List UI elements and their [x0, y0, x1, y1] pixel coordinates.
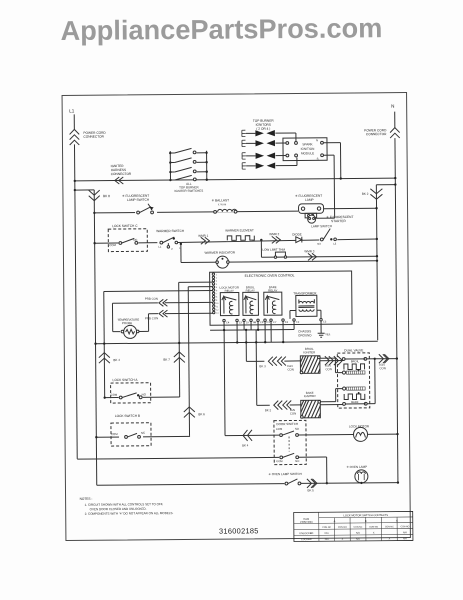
junction fluor switch row [93, 212, 95, 214]
svg-text:WMR 3: WMR 3 [304, 249, 314, 253]
dual valve spark switch broil [342, 371, 365, 374]
svg-text:CON-NC: CON-NC [354, 527, 363, 529]
svg-text:N/A: N/A [403, 537, 407, 540]
border frame [62, 92, 410, 540]
wire lock B row [96, 435, 190, 438]
svg-text:2: 2 [216, 277, 218, 279]
connector BK 6 [184, 407, 195, 412]
wire pin to lock feed [104, 289, 212, 292]
svg-text:RELAY: RELAY [268, 288, 277, 292]
top burner ignitor 2 [242, 140, 275, 147]
svg-text:COM: COM [111, 432, 118, 436]
svg-text:NC: NC [141, 431, 145, 435]
svg-text:CON-NO: CON-NO [369, 526, 378, 528]
svg-text:WARMER ELEMENT: WARMER ELEMENT [225, 228, 254, 232]
svg-text:LAMP SWITCH: LAMP SWITCH [127, 198, 150, 202]
svg-text:NO: NO [142, 392, 147, 396]
wire bus1 [210, 328, 294, 331]
wire ignitor row3 to module [276, 155, 286, 157]
lock switch B contacts [119, 431, 143, 440]
svg-text:BK 5: BK 5 [307, 488, 314, 492]
junction lock B com [95, 436, 97, 438]
connector BK 2 top [370, 189, 382, 194]
svg-text:COM: COM [111, 393, 118, 397]
module pin left top [286, 142, 289, 145]
wire warmer indicator drop [180, 244, 182, 262]
svg-text:C4: C4 [226, 321, 230, 324]
oven lamp [355, 470, 368, 483]
svg-text:YEL: YEL [325, 332, 331, 336]
wire N to BK2 branch [376, 184, 395, 186]
svg-text:(LT523B): (LT523B) [218, 204, 227, 206]
svg-text:N/A: N/A [325, 538, 329, 541]
svg-text:CY: CY [273, 321, 277, 324]
junction BK8 branch [74, 189, 76, 191]
wire module S to starter [324, 154, 334, 156]
wire probe lower left [148, 313, 157, 315]
junction L1 top [74, 180, 76, 182]
svg-text:IGNITER: IGNITER [303, 350, 315, 354]
svg-text:A: A [334, 519, 336, 523]
connector IGN CON broil right [325, 356, 330, 365]
wire transformer right lead [317, 309, 321, 311]
svg-text:K2: K2 [285, 321, 289, 324]
lock switch C contacts [118, 237, 138, 246]
wire bake igniter to valve [320, 404, 343, 406]
module pin S [321, 154, 324, 157]
wire control drop x271 [270, 321, 272, 329]
bake igniter [300, 400, 320, 418]
connector BK 7 [174, 352, 185, 357]
svg-text:19: 19 [246, 321, 249, 324]
svg-text:N: N [316, 138, 318, 142]
svg-text:CON: CON [287, 367, 293, 371]
wire probe upper left [112, 302, 157, 304]
wire drop 256 bake [255, 330, 258, 405]
wire probe lower [165, 312, 212, 314]
junction bus2 x237 [236, 341, 238, 343]
svg-text:NC: NC [133, 238, 137, 242]
svg-text:PRB CON: PRB CON [145, 316, 158, 320]
wire transformer left lead [290, 309, 296, 311]
svg-text:L3: L3 [333, 242, 336, 246]
svg-text:N/A: N/A [356, 532, 360, 535]
svg-text:C: C [396, 519, 398, 523]
wire lock A row [105, 396, 180, 399]
relay K3 bake relay [264, 292, 282, 315]
svg-text:6: 6 [216, 290, 218, 292]
control connector P1 pins [212, 273, 219, 315]
wire bake chev to igniter [290, 404, 301, 406]
dual valve spark switch bake [343, 387, 366, 390]
wire ignitor row4 to module [276, 164, 297, 166]
junction oven lamp [360, 482, 362, 484]
warmer element R1 [226, 234, 254, 241]
svg-text:IGNITER: IGNITER [304, 394, 316, 398]
warmer switch [157, 234, 182, 245]
connector PRB CON upper [159, 299, 164, 306]
warmer indicator lamp [216, 256, 230, 268]
door switch lower contacts [279, 451, 301, 459]
svg-text:11: 11 [216, 306, 219, 308]
lock switch C box [108, 229, 147, 252]
wire control drop x237 [236, 322, 238, 330]
svg-text:GROUND: GROUND [298, 333, 312, 337]
svg-text:P: P [171, 247, 173, 251]
svg-text:DOOR SWITCH: DOOR SWITCH [276, 422, 298, 426]
svg-text:CON-NO: CON-NO [400, 526, 409, 528]
top burner igniter switches left rail [169, 151, 171, 180]
wire control drop x251 [250, 322, 252, 330]
svg-text:✳ OVEN LAMP: ✳ OVEN LAMP [346, 465, 367, 469]
svg-text:TRANSFORMER: TRANSFORMER [293, 291, 317, 295]
svg-text:BAKE: BAKE [351, 400, 358, 404]
wire lamp to x377 [323, 207, 376, 209]
svg-text:BK 4: BK 4 [242, 443, 249, 447]
connector BK 4 lock [99, 353, 110, 358]
svg-text:COM: COM [276, 427, 283, 431]
wire fluorescent lamp switch row [94, 211, 298, 213]
svg-text:POSITION: POSITION [300, 520, 313, 524]
wire drop 265 [264, 330, 266, 342]
door switch upper contacts [279, 429, 301, 437]
wire low limit row [261, 256, 376, 257]
svg-text:NOTES :: NOTES : [80, 497, 93, 501]
wire broil igniter to valve [320, 360, 343, 362]
svg-text:8: 8 [216, 297, 218, 299]
svg-text:CONNECTOR: CONNECTOR [366, 132, 387, 136]
wire N vertical [394, 112, 396, 128]
svg-text:CON: CON [290, 411, 296, 415]
wire valve to N [375, 358, 397, 360]
svg-text:13: 13 [216, 313, 219, 315]
connector BK 2 bake [274, 401, 279, 410]
svg-text:RELAY: RELAY [246, 289, 255, 293]
top burner ignitor 1 [242, 130, 275, 137]
junction valve N [396, 357, 398, 359]
junction lock C row [93, 242, 95, 244]
svg-text:BK 2: BK 2 [265, 408, 272, 412]
svg-text:S: S [317, 157, 319, 161]
wire valve right rail [367, 358, 375, 360]
module pin N [321, 141, 324, 144]
temperature probe [121, 325, 139, 338]
connector IGN CON valve right [379, 354, 384, 363]
junction bus1 224 [223, 329, 225, 331]
junction low limit branch [260, 239, 262, 241]
svg-text:C2: C2 [296, 321, 300, 324]
junction bus2 283 [282, 341, 284, 343]
svg-text:DUAL VALVE: DUAL VALVE [344, 348, 363, 352]
control bottom terminals [223, 319, 322, 322]
svg-text:5: 5 [216, 287, 218, 289]
svg-text:L1: L1 [158, 245, 161, 249]
svg-text:6B: 6B [253, 321, 256, 324]
svg-text:LOCK MOTOR: LOCK MOTOR [349, 424, 370, 428]
svg-text:12: 12 [216, 309, 219, 311]
wire control drop x283 [282, 321, 284, 329]
wire low limit drop [260, 240, 262, 257]
svg-text:SPARK: SPARK [302, 142, 313, 146]
svg-text:WARMER INDICATOR: WARMER INDICATOR [204, 250, 235, 254]
junction x377 warmer [376, 238, 378, 240]
svg-text:BK 2: BK 2 [362, 192, 369, 196]
svg-text:WARMER SWITCH: WARMER SWITCH [156, 229, 185, 233]
svg-text:LOCK SWITCH A: LOCK SWITCH A [113, 378, 139, 382]
connector BK 8 [89, 190, 100, 195]
svg-text:X: X [373, 531, 375, 534]
wire spark bake link [336, 388, 343, 390]
lock motor M1 [353, 427, 367, 441]
wire spark broil link [335, 372, 342, 374]
module pin mid top [295, 142, 298, 145]
relay K1 lock motor relay [220, 292, 239, 315]
wire main top horizontal [75, 178, 395, 181]
wire drop 237 [236, 330, 238, 342]
ballast L1 [214, 206, 237, 213]
connector BK 5 [307, 479, 312, 488]
svg-text:MODULE: MODULE [301, 151, 314, 155]
svg-text:L1: L1 [69, 108, 75, 113]
svg-text:LOCKED: LOCKED [301, 538, 312, 541]
svg-text:10: 10 [216, 303, 219, 305]
svg-text:9: 9 [216, 300, 218, 302]
low limit thermostat [274, 252, 286, 258]
wire control drop x244 [243, 322, 245, 330]
wire door top row [225, 434, 279, 436]
fluorescent lamp switch [135, 204, 157, 215]
wire drop 271 [270, 330, 272, 342]
module pin mid bottom [295, 154, 298, 157]
wire lamp row mid [321, 482, 397, 485]
wire lock motor to N [368, 433, 398, 435]
wire warmer indicator row [181, 261, 377, 263]
wire BK8 vertical [94, 190, 97, 485]
igniter switch row 4 [169, 175, 208, 181]
wire BK2 vertical [376, 185, 377, 340]
svg-text:N3: N3 [317, 242, 321, 246]
junction lock A com [103, 396, 105, 398]
wire probe upper [165, 301, 212, 303]
svg-text:AppliancePartsPros.com: AppliancePartsPros.com [60, 12, 382, 46]
svg-text:RELAY: RELAY [225, 289, 234, 293]
wire lamp switch to chev [301, 482, 321, 484]
top burner ignitor 4 [242, 162, 275, 169]
power cord connector right [390, 128, 400, 138]
wire control drop x224 [223, 322, 225, 330]
svg-text:CON-NC: CON-NC [385, 526, 394, 528]
svg-text:LOCK SWITCH B: LOCK SWITCH B [115, 414, 140, 418]
junction module N main line [340, 177, 342, 179]
wire control drop x258 [257, 322, 259, 330]
junction lamp row N [397, 481, 399, 483]
wire door lower to lamp line [299, 456, 327, 458]
dual valve bake coil [343, 392, 368, 405]
junction N top [394, 177, 396, 179]
relay K2 broil relay [243, 292, 259, 315]
svg-text:CP: CP [260, 321, 264, 324]
svg-text:B: B [365, 519, 367, 523]
lock switch A box [111, 383, 151, 403]
svg-text:3: 3 [216, 281, 218, 283]
wire pin to BK6 [188, 286, 212, 288]
wire BK8 branch [75, 189, 94, 191]
power cord connector left [70, 129, 80, 145]
svg-text:7: 7 [216, 293, 218, 295]
lock switch B box [111, 423, 151, 446]
igniter switch row 2 [169, 158, 208, 164]
svg-text:LOCK SWITCH C: LOCK SWITCH C [112, 224, 138, 228]
junction bus2 BK7 [178, 342, 180, 344]
wire drop 283 [282, 330, 284, 342]
svg-text:IGNITION: IGNITION [301, 147, 315, 151]
svg-text:CONNECTOR: CONNECTOR [83, 135, 104, 139]
wire door upper to lock motor [299, 433, 354, 435]
svg-text:COM: COM [109, 243, 116, 247]
junction x377 indicator [376, 260, 378, 262]
svg-text:LOW LIMIT THM: LOW LIMIT THM [262, 248, 285, 252]
connector PRB CON lower [159, 310, 164, 317]
wire warmer row [178, 239, 377, 243]
lamp switch [319, 229, 337, 242]
oven lamp switch [284, 476, 302, 485]
spark ignition module U1 [283, 138, 327, 161]
svg-text:1: 1 [216, 274, 218, 276]
svg-text:N/A: N/A [356, 538, 360, 541]
dual valve box [337, 353, 369, 408]
wire L1 vertical [73, 114, 75, 129]
svg-text:NO: NO [295, 459, 299, 463]
junction bus2 left [94, 343, 96, 345]
svg-text:2. COMPONENTS WITH '✳' DO NOT: 2. COMPONENTS WITH '✳' DO NOT APPEAR ON … [85, 511, 174, 516]
svg-text:STARTER: STARTER [331, 219, 346, 223]
wire BK3 to broil igniter [284, 360, 300, 362]
wire drop 246 broil [245, 330, 247, 361]
svg-text:BROIL: BROIL [351, 359, 360, 363]
wire C3 to chassis ground [320, 321, 322, 333]
top burner ignitor 3 [242, 152, 275, 159]
svg-text:BK 6: BK 6 [198, 412, 205, 416]
junction bus2 256 [255, 341, 257, 343]
svg-text:CONNECTOR: CONNECTOR [111, 172, 132, 176]
svg-text:WMR 2: WMR 2 [269, 232, 279, 236]
junction valve right [374, 358, 376, 360]
junction lamp row door [326, 482, 328, 484]
wire pin to BK7 [179, 281, 212, 283]
wire C2 drop [293, 321, 295, 329]
wire control drop x265 [264, 322, 266, 330]
junction bus1 246 [245, 329, 247, 331]
wire bus2 [96, 341, 378, 343]
svg-text:IGNITER SWITCHES: IGNITER SWITCHES [174, 189, 203, 193]
junction bus1 258 [257, 329, 259, 331]
svg-text:COM: COM [276, 459, 283, 463]
lock switch A contacts [119, 391, 143, 400]
svg-text:PRB CON: PRB CON [145, 297, 158, 301]
chassis ground [318, 333, 325, 337]
dual valve broil coil [342, 357, 367, 371]
svg-text:BK 7: BK 7 [163, 358, 170, 362]
wire lock switch C row [95, 242, 160, 245]
broil igniter [300, 356, 320, 374]
svg-text:CON-NO: CON-NO [338, 527, 347, 529]
igniter switch row 1 [169, 148, 208, 154]
junction lock motor N [396, 433, 398, 435]
svg-text:N/A: N/A [325, 532, 329, 535]
connector WMR 2 [272, 236, 277, 243]
igniter harness connector [115, 177, 120, 184]
svg-text:316002185: 316002185 [219, 526, 259, 535]
connector WMR 3 [308, 253, 313, 260]
svg-text:PROBE: PROBE [122, 321, 132, 325]
svg-text:( 2 OR 4 ): ( 2 OR 4 ) [256, 127, 270, 131]
fluorescent lamp [299, 204, 324, 218]
svg-text:CON: CON [379, 366, 385, 370]
svg-text:CON-NC: CON-NC [322, 527, 331, 529]
fluorescent starter [308, 215, 316, 223]
junction N BK2 [394, 183, 396, 185]
module pin left bottom [286, 154, 289, 157]
svg-text:C1: C1 [267, 321, 271, 324]
transformer T1 [296, 295, 317, 316]
wire door lower row [77, 457, 279, 459]
svg-text:DIODE: DIODE [292, 232, 302, 236]
svg-text:UNLOCKED: UNLOCKED [299, 532, 313, 535]
svg-text:BK 4: BK 4 [113, 358, 120, 362]
svg-text:NO: NO [295, 427, 299, 431]
wire oven lamp row left [97, 484, 285, 486]
svg-text:ELECTRONIC OVEN CONTROL: ELECTRONIC OVEN CONTROL [245, 273, 295, 277]
igniter switch row 3 [169, 167, 208, 173]
door switch box [274, 420, 306, 464]
top burner igniter switches right rail [206, 151, 208, 180]
svg-text:N/A: N/A [403, 531, 407, 534]
lock motor switch contacts table [294, 511, 413, 541]
connector BK 4 door [243, 430, 248, 441]
svg-text:LAMP: LAMP [305, 198, 314, 202]
connector BK 3 [268, 357, 273, 366]
svg-text:✳ BALLAST: ✳ BALLAST [211, 198, 229, 202]
electronic oven control box [210, 271, 352, 325]
svg-text:LOCK MOTOR SWITCH CONTACTS: LOCK MOTOR SWITCH CONTACTS [343, 513, 388, 517]
junction bus2 265 [264, 341, 266, 343]
wire ignitor row2 to module [275, 142, 285, 144]
svg-text:LAMP SWITCH: LAMP SWITCH [311, 224, 332, 228]
svg-text:C3: C3 [323, 320, 327, 323]
svg-text:N: N [391, 104, 394, 109]
wire module N to main line [323, 142, 340, 144]
svg-text:13: 13 [239, 321, 242, 324]
connector WMR 1 [201, 237, 206, 244]
warmer switch pin labels [167, 243, 169, 245]
svg-text:✳ OVEN LAMP SWITCH: ✳ OVEN LAMP SWITCH [268, 472, 302, 476]
junction x377 lamp [375, 207, 377, 209]
svg-text:BK 8: BK 8 [103, 194, 110, 198]
door switch link [288, 437, 290, 456]
svg-text:BK 3: BK 3 [259, 364, 266, 368]
svg-text:CON: CON [325, 367, 331, 371]
junction bus2 246 [245, 341, 247, 343]
svg-text:WMR 1: WMR 1 [198, 234, 208, 238]
svg-text:4: 4 [216, 284, 218, 286]
wire ignitor row1 to module [275, 132, 295, 134]
junction x377 lowlimit [376, 255, 378, 257]
junction bus2 x104 [103, 342, 105, 344]
wire drop 224 long [223, 330, 226, 435]
diode D1 [296, 237, 302, 243]
